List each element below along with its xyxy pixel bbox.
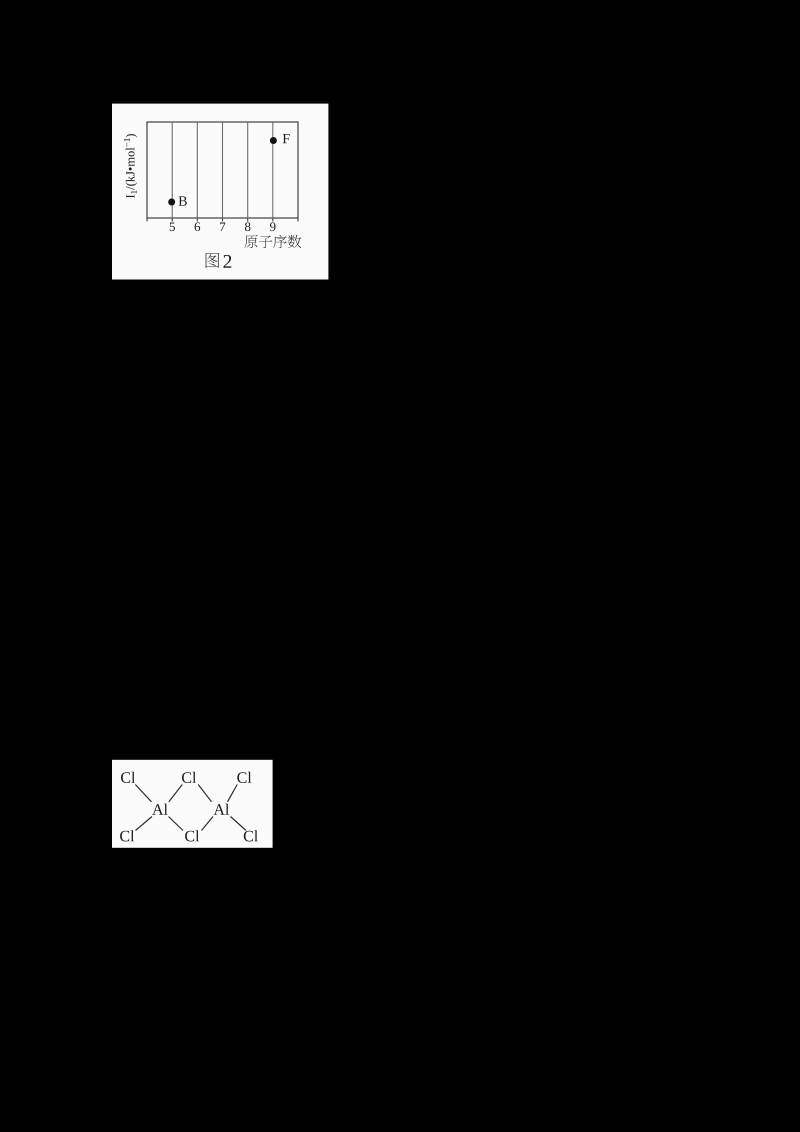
gridline x=8 — [247, 122, 249, 218]
x tick label 7 — [220, 222, 225, 231]
axis tick at 6 — [196, 218, 198, 222]
gridline x=6 — [196, 122, 198, 218]
bond Al(right)-Cl(bottom-mid) — [202, 817, 214, 831]
atom label Cl top-mid — [182, 772, 196, 783]
x tick label 8 — [245, 222, 251, 231]
x-axis title char 子 — [259, 235, 272, 247]
bond Cl(top-left)-Al(left) — [135, 785, 151, 802]
atom label Al right — [214, 804, 230, 815]
gridline x=5 — [171, 122, 173, 218]
axis tick at right edge — [297, 218, 299, 222]
bond Al(right)-Cl(bottom-right) — [231, 817, 247, 831]
x tick label 6 — [195, 222, 201, 231]
bond Al(left)-Cl(bottom-left) — [136, 817, 153, 831]
data point F — [270, 137, 277, 144]
bond Cl(top-right)-Al(right) — [228, 785, 238, 802]
bond Cl(top-mid)-Al(left) — [169, 785, 183, 802]
y-axis label I1/(kJ·mol−1) — [124, 134, 137, 198]
axis tick at 8 — [247, 218, 249, 222]
atom label Cl bottom-mid — [185, 830, 199, 841]
x tick label 5 — [170, 222, 175, 231]
plot frame — [147, 122, 298, 218]
axis tick at 9 — [272, 218, 274, 222]
data point label F — [283, 134, 290, 143]
axis tick at left edge — [146, 218, 148, 222]
data point label B — [179, 196, 187, 205]
atom label Cl top-left — [121, 772, 135, 783]
atom label Cl bottom-right — [244, 830, 258, 841]
x tick label 9 — [270, 222, 276, 231]
atom label Cl bottom-left — [120, 830, 134, 841]
figure 2 white panel — [112, 104, 328, 280]
bond Cl(top-mid)-Al(right) — [198, 785, 211, 802]
axis tick at 7 — [222, 218, 224, 222]
x-axis title char 数 — [288, 235, 301, 248]
axis tick at 5 — [171, 218, 173, 222]
caption numeral 2 — [223, 255, 231, 268]
gridline x=9 — [272, 122, 274, 218]
atom label Al left — [152, 804, 168, 815]
bond Al(left)-Cl(bottom-mid) — [169, 817, 184, 831]
data point B — [168, 199, 175, 206]
gridline x=7 — [222, 122, 224, 218]
x-axis title char 序 — [273, 235, 286, 248]
caption char 图 — [206, 253, 220, 268]
x-axis title char 原 — [245, 235, 258, 248]
Al2Cl6 white panel — [112, 760, 273, 848]
atom label Cl top-right — [237, 772, 251, 783]
